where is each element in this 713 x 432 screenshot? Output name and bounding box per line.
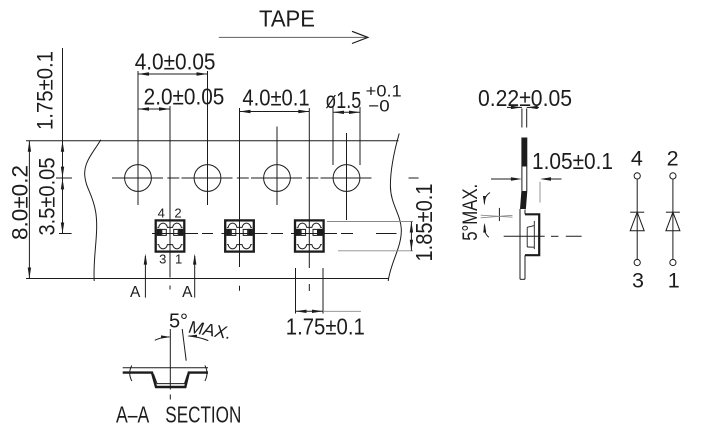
dimension 0.22±0.05 (tape thickness) bbox=[478, 85, 572, 128]
component 3 vertical centerline / extension bbox=[308, 108, 310, 268]
tape direction arrow line bbox=[219, 36, 366, 38]
svg-text:4.0±0.1: 4.0±0.1 bbox=[242, 85, 309, 111]
svg-text:1.05±0.1: 1.05±0.1 bbox=[532, 148, 613, 174]
svg-text:−0: −0 bbox=[368, 96, 389, 115]
tape top edge bbox=[26, 140, 399, 142]
side view: tape back edge at hole band bbox=[526, 167, 528, 192]
section centerline bbox=[169, 329, 171, 390]
dimension 4.0±0.05 (hole pitch) bbox=[135, 49, 216, 76]
svg-text:1: 1 bbox=[175, 251, 182, 266]
sprocket hole 4 bbox=[333, 165, 360, 192]
side view: tape front edge at hole band bbox=[521, 167, 523, 192]
dimension 1.85±0.1 (pocket length) bbox=[327, 184, 437, 262]
svg-text:5°MAX.: 5°MAX. bbox=[459, 184, 482, 241]
dimension 8.0±0.2 (tape width) bbox=[8, 141, 33, 279]
section: pocket inner surface bbox=[154, 374, 188, 383]
svg-text:1.75±0.1: 1.75±0.1 bbox=[286, 313, 365, 339]
dimension 1.05±0.1 (total tape+pocket height) bbox=[491, 148, 613, 203]
section: cover tape (top line) bbox=[123, 367, 208, 369]
angle dimension 5°MAX (side view, pocket draft) bbox=[459, 184, 513, 241]
side view: component inside pocket bbox=[527, 221, 534, 249]
component 2 vertical centerline / extension bbox=[239, 108, 241, 267]
dimension 4.0±0.1 (component pitch) bbox=[240, 85, 310, 114]
pin 3 terminal circle bbox=[634, 259, 640, 265]
section title A-A SECTION bbox=[116, 402, 241, 428]
side view: embossed pocket (thick) bbox=[525, 214, 539, 255]
svg-text:A–A: A–A bbox=[116, 402, 150, 428]
component package 2 in pocket bbox=[225, 220, 254, 251]
svg-text:A: A bbox=[182, 284, 193, 301]
tape direction arrowhead bbox=[352, 31, 368, 43]
svg-text:1.75±0.1: 1.75±0.1 bbox=[32, 51, 57, 130]
hole 1 vertical centerline / extension bbox=[137, 71, 139, 205]
sprocket hole 2 bbox=[194, 165, 221, 192]
component 1 centerline dash bbox=[169, 286, 171, 290]
diode D2 bbox=[666, 212, 680, 231]
svg-text:2: 2 bbox=[174, 205, 181, 220]
wire pin 4 to diode D1 bbox=[636, 179, 638, 259]
tape right break curve bbox=[388, 134, 401, 282]
svg-text:A: A bbox=[130, 284, 141, 301]
svg-text:1: 1 bbox=[668, 269, 680, 293]
svg-text:2.0±0.05: 2.0±0.05 bbox=[144, 84, 225, 110]
dimension 1.75±0.1 (tape edge to hole centerline) bbox=[32, 48, 64, 234]
svg-text:8.0±0.2: 8.0±0.2 bbox=[8, 165, 33, 240]
sprocket hole 3 bbox=[264, 165, 291, 192]
svg-text:4: 4 bbox=[631, 146, 643, 170]
diode D1 bbox=[630, 212, 644, 231]
svg-text:2: 2 bbox=[667, 146, 679, 170]
svg-text:5°: 5° bbox=[169, 311, 188, 333]
svg-text:TAPE: TAPE bbox=[259, 6, 315, 32]
section centerline dash bbox=[169, 395, 171, 400]
section cut arrow A (right) bbox=[182, 254, 196, 301]
component package 3 in pocket bbox=[295, 220, 324, 251]
svg-text:3.5±0.05: 3.5±0.05 bbox=[34, 158, 59, 236]
pin 4 terminal circle bbox=[634, 173, 640, 179]
component package 1 in pocket bbox=[156, 220, 185, 251]
dimension 1.75±0.1 (pocket width) bbox=[286, 268, 365, 339]
side view centerline bbox=[504, 235, 582, 237]
section left break mark bbox=[130, 366, 132, 382]
svg-text:1.85±0.1: 1.85±0.1 bbox=[411, 184, 437, 262]
svg-text:3: 3 bbox=[632, 269, 644, 293]
hole 4 vertical centerline bbox=[346, 133, 348, 220]
svg-text:ø1.5: ø1.5 bbox=[325, 87, 361, 113]
sprocket hole centerline (horizontal) bbox=[56, 177, 72, 179]
pin 2 terminal circle bbox=[670, 173, 676, 179]
dimension 3.5±0.05 (hole centerline to component centerline) bbox=[34, 158, 64, 236]
hole 2 vertical centerline / extension bbox=[207, 71, 209, 205]
component pocket centerline (horizontal) bbox=[59, 233, 72, 235]
component 3 centerline dash bbox=[308, 284, 310, 291]
side view: carrier tape upper section (black) bbox=[521, 138, 527, 167]
side view: tape outline below bbox=[520, 209, 525, 279]
tape bottom edge bbox=[26, 278, 389, 280]
side view: tape lower black section bbox=[520, 191, 527, 209]
section cut arrow A (left) bbox=[130, 254, 147, 301]
component 2 centerline dash bbox=[239, 286, 241, 291]
dimension 2.0±0.05 (hole to component) bbox=[138, 84, 224, 111]
svg-text:4.0±0.05: 4.0±0.05 bbox=[135, 49, 216, 75]
section right break mark bbox=[205, 366, 207, 382]
tape left break curve bbox=[85, 140, 101, 281]
svg-text:4: 4 bbox=[158, 205, 165, 220]
hole 3 vertical centerline bbox=[276, 127, 278, 206]
angle dimension 5°MAX (section, pocket draft) bbox=[155, 311, 233, 361]
wire pin 2 to diode D2 bbox=[672, 179, 674, 259]
svg-text:3: 3 bbox=[159, 251, 166, 266]
section: carrier tape profile (thick) bbox=[123, 373, 208, 387]
pin 1 terminal circle bbox=[670, 259, 676, 265]
component 1 vertical centerline / extension bbox=[169, 106, 171, 278]
svg-text:0.22±0.05: 0.22±0.05 bbox=[478, 85, 572, 111]
sprocket hole 1 bbox=[125, 165, 152, 192]
svg-text:SECTION: SECTION bbox=[165, 402, 241, 428]
dimension ø1.5 +0.1/−0 (hole diameter) bbox=[325, 82, 401, 165]
